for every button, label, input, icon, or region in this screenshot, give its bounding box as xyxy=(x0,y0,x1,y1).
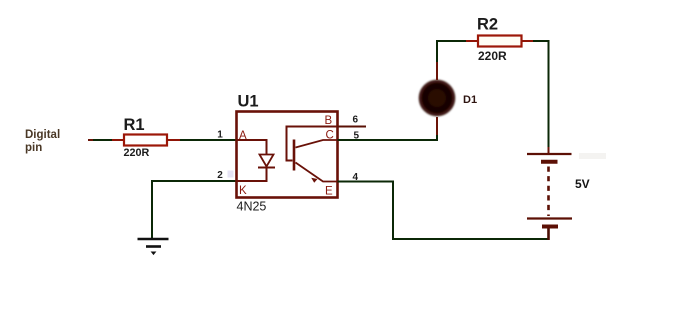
svg-text:4N25: 4N25 xyxy=(237,199,267,213)
pin number 2 xyxy=(217,170,223,181)
pin label A xyxy=(239,130,247,142)
wire D1 to R2 xyxy=(437,41,478,80)
wire R2 to battery positive xyxy=(522,41,549,153)
faint eraser smudges xyxy=(228,153,607,178)
node Digital pin label xyxy=(25,129,60,154)
svg-text:1: 1 xyxy=(217,129,223,140)
resistor R2 xyxy=(477,16,522,63)
svg-text:Digital: Digital xyxy=(25,129,60,141)
svg-text:R2: R2 xyxy=(477,16,498,34)
wire U1 pin 2 to ground xyxy=(152,181,237,239)
svg-text:2: 2 xyxy=(217,170,223,181)
wire U1 pin 4 to battery negative xyxy=(338,182,549,240)
wire R1 to U1 pin 1 xyxy=(167,139,237,141)
pin 6 stub xyxy=(338,126,367,128)
svg-text:6: 6 xyxy=(353,115,359,126)
pin number 6 xyxy=(353,115,359,126)
svg-text:E: E xyxy=(325,185,333,197)
transistor inside U1 xyxy=(287,127,338,183)
svg-text:U1: U1 xyxy=(238,93,259,111)
svg-text:B: B xyxy=(325,115,333,127)
ground xyxy=(138,239,169,255)
svg-text:5V: 5V xyxy=(575,177,590,191)
optocoupler U1 4N25 body xyxy=(237,93,338,214)
LED D1 xyxy=(420,81,478,116)
pin label E xyxy=(325,185,333,197)
svg-text:R1: R1 xyxy=(124,116,145,134)
battery 5V xyxy=(527,154,590,240)
pin number 5 xyxy=(354,130,360,141)
LED diode inside U1 xyxy=(237,140,276,181)
pin label B xyxy=(325,115,333,127)
wire U1 pin 5 to D1 xyxy=(338,117,438,140)
pin label K xyxy=(239,185,247,197)
svg-text:220R: 220R xyxy=(478,49,507,63)
svg-text:pin: pin xyxy=(25,142,42,154)
pin label C xyxy=(326,130,334,142)
svg-text:D1: D1 xyxy=(463,94,477,106)
pin number 4 xyxy=(353,172,359,183)
resistor R1 xyxy=(124,116,168,159)
pin number 1 xyxy=(217,129,223,140)
svg-text:220R: 220R xyxy=(124,147,150,159)
svg-text:K: K xyxy=(239,185,247,197)
wire from digital pin to R1 xyxy=(88,139,124,141)
